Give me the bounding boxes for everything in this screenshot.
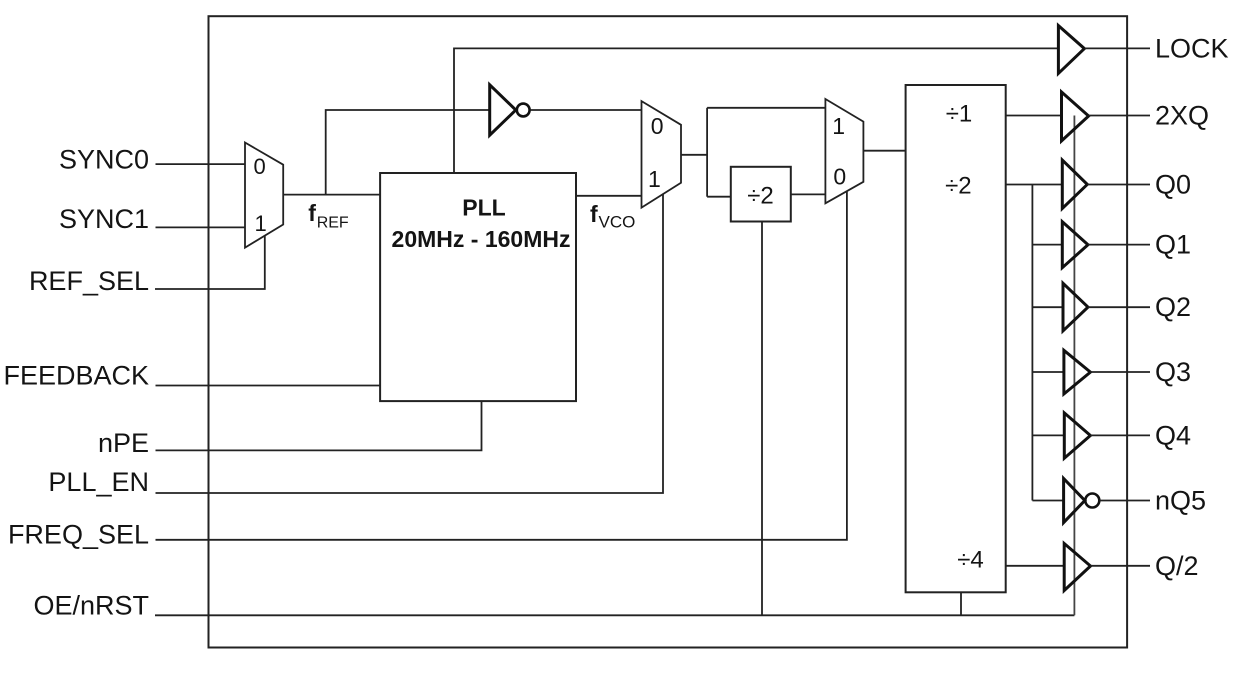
svg-text:0: 0 — [833, 164, 846, 190]
wire OE vertical bus through output buffers — [1073, 116, 1075, 616]
wire divide-by-4 output to Q/2 buffer — [1006, 565, 1064, 567]
svg-text:Q4: Q4 — [1155, 420, 1191, 450]
svg-text:PLL_EN: PLL_EN — [48, 467, 149, 497]
wire divide-by-1 output to 2XQ buffer — [1006, 115, 1062, 117]
wire FEEDBACK to PLL — [156, 385, 381, 387]
wire nQ5 output — [1100, 500, 1150, 502]
divide-by-2 block U6 — [731, 167, 791, 222]
svg-text:SYNC1: SYNC1 — [59, 204, 149, 234]
svg-text:FREQ_SEL: FREQ_SEL — [8, 520, 149, 550]
wire Q1 output — [1088, 244, 1150, 246]
wire branch to mux U3 input 1 — [707, 107, 825, 109]
svg-text:VCO: VCO — [599, 213, 636, 232]
wire f_VCO: PLL output to mux U2 input 1 — [576, 195, 642, 197]
svg-text:÷2: ÷2 — [945, 173, 972, 200]
svg-text:÷4: ÷4 — [957, 547, 984, 574]
svg-text:Q0: Q0 — [1155, 170, 1191, 200]
svg-text:PLL: PLL — [462, 195, 505, 221]
svg-text:nPE: nPE — [98, 428, 149, 458]
wire PLL_EN to mux U2 select — [156, 194, 664, 493]
buffer Q1 triangle — [1062, 222, 1088, 268]
inverting buffer nQ5 bubble — [1085, 494, 1099, 508]
wire branch to divide-by-2 input — [707, 196, 731, 198]
wire SYNC1 — [156, 226, 246, 228]
wire stub to Q2 buffer — [1032, 306, 1063, 308]
svg-text:SYNC0: SYNC0 — [59, 145, 149, 175]
buffer Q4 triangle — [1064, 413, 1090, 458]
svg-text:REF: REF — [317, 214, 349, 231]
wire Q0 output — [1087, 184, 1150, 186]
wire mux U2 output — [681, 154, 707, 156]
wire stub to Q1 buffer — [1032, 244, 1062, 246]
wire Q2 output — [1088, 306, 1150, 308]
outer boundary box — [209, 16, 1128, 647]
wire mux U3 output to divider block — [863, 150, 905, 152]
wire Q/2 output — [1091, 565, 1151, 567]
svg-text:Q1: Q1 — [1155, 230, 1191, 260]
svg-text:OE/nRST: OE/nRST — [33, 591, 149, 621]
mux U3 FREQ_SEL trapezoid — [825, 99, 863, 203]
inverter U4 bubble — [517, 104, 530, 117]
svg-text:0: 0 — [253, 154, 265, 179]
svg-text:20MHz - 160MHz: 20MHz - 160MHz — [392, 226, 571, 252]
svg-text:nQ5: nQ5 — [1155, 486, 1206, 516]
wire LOCK from PLL top to LOCK buffer — [454, 48, 1058, 173]
svg-text:÷2: ÷2 — [747, 183, 774, 210]
svg-text:f: f — [308, 200, 316, 226]
PLL block U5 — [380, 173, 576, 401]
mux U2 PLL_EN trapezoid — [642, 101, 682, 208]
svg-text:Q/2: Q/2 — [1155, 551, 1199, 581]
svg-text:Q3: Q3 — [1155, 357, 1191, 387]
wire f_REF node: mux U1 output to PLL input — [283, 194, 380, 196]
svg-text:1: 1 — [832, 113, 845, 139]
inverting buffer nQ5 triangle — [1064, 479, 1085, 523]
wire SYNC0 — [156, 163, 246, 165]
wire Q4 output — [1090, 434, 1150, 436]
svg-text:÷1: ÷1 — [946, 101, 973, 128]
wire stub to nQ5 inverter — [1032, 500, 1063, 502]
wire OE/nRST horizontal run — [155, 614, 1074, 616]
wire divide-by-2 reset to OE line — [761, 222, 763, 616]
buffer Q3 triangle — [1064, 350, 1091, 394]
mux U1 REF_SEL trapezoid — [245, 143, 283, 248]
wire LOCK output — [1084, 47, 1150, 49]
inverter U4 triangle — [490, 85, 516, 135]
svg-text:LOCK: LOCK — [1155, 33, 1229, 63]
wire stub to Q4 buffer — [1032, 434, 1064, 436]
buffer 2XQ triangle — [1062, 92, 1089, 141]
wire nPE to PLL bottom — [156, 401, 482, 450]
wire divide-by-2 output to Q0 buffer — [1006, 184, 1063, 186]
svg-text:1: 1 — [254, 211, 266, 236]
buffer Q0 triangle — [1062, 160, 1087, 208]
wire FREQ_SEL to mux U3 select — [156, 191, 847, 540]
buffer Q/2 triangle — [1064, 544, 1090, 591]
wire OE branch to divider reset — [960, 592, 962, 615]
buffer Q2 triangle — [1063, 283, 1088, 331]
buffer LOCK triangle — [1058, 26, 1084, 74]
wire branch vertical at node B — [706, 108, 708, 197]
wire Q3 output — [1090, 371, 1150, 373]
wire stub to Q3 buffer — [1032, 371, 1064, 373]
svg-text:2XQ: 2XQ — [1155, 101, 1209, 131]
wire 2XQ output — [1089, 115, 1150, 117]
wire branch from f_REF up to inverter input — [326, 110, 490, 195]
svg-text:Q2: Q2 — [1155, 292, 1191, 322]
wire REF_SEL to mux U1 select — [155, 235, 265, 289]
divider block U7 — [906, 85, 1006, 592]
svg-text:f: f — [590, 201, 598, 227]
svg-text:1: 1 — [648, 166, 661, 192]
svg-text:FEEDBACK: FEEDBACK — [3, 361, 149, 391]
wire divide-by-2 output to mux U3 input 0 — [791, 193, 826, 195]
svg-text:0: 0 — [651, 113, 664, 139]
wire inverter output to mux U2 input 0 — [530, 109, 641, 111]
svg-text:REF_SEL: REF_SEL — [29, 266, 149, 296]
wire Q bus vertical — [1031, 185, 1033, 501]
